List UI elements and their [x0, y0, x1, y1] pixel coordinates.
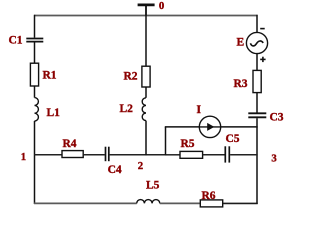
wire R3 to C3 [256, 93, 258, 113]
capacitor C5 [225, 146, 229, 162]
wire center vertical top [145, 16, 147, 67]
wire I-branch horizontal right [221, 126, 258, 128]
svg-text:0: 0 [159, 0, 164, 12]
wire C5 to node 3 [230, 154, 258, 156]
svg-text:R6: R6 [202, 190, 216, 202]
wire left rail bottom / node 1 [34, 121, 36, 204]
resistor R2 [142, 66, 150, 87]
wire R4 to C4 [83, 154, 105, 156]
wire C1 to R1 [34, 42, 36, 63]
svg-text:1: 1 [21, 151, 26, 163]
wire I-branch horizontal left [165, 126, 200, 128]
svg-text:2: 2 [138, 160, 143, 172]
inductor L2 [142, 98, 146, 121]
wire bottom rail left [34, 202, 137, 204]
wire E to R3 [256, 54, 258, 71]
current source I [199, 116, 220, 137]
resistor R6 [200, 200, 222, 207]
capacitor C1 [26, 39, 43, 42]
svg-text:L2: L2 [120, 103, 134, 115]
svg-text:R5: R5 [181, 138, 195, 150]
svg-text:R2: R2 [124, 71, 138, 83]
svg-text:C4: C4 [108, 164, 122, 176]
svg-text:R4: R4 [63, 138, 77, 150]
wire L2 to node 2 [145, 121, 147, 156]
wire C4 to node 2 [110, 154, 146, 156]
wire right rail bottom [256, 155, 258, 204]
wire C3 to I-branch junction [256, 118, 258, 127]
resistor R4 [62, 151, 83, 158]
wire I-branch vertical [165, 127, 167, 156]
wire top rail node 0 [34, 15, 258, 17]
svg-text:3: 3 [271, 153, 277, 165]
capacitor C3 [248, 113, 266, 117]
wire right rail to node 3 [256, 127, 258, 155]
svg-text:R3: R3 [234, 78, 248, 90]
svg-text:I: I [197, 104, 202, 116]
resistor R1 [30, 63, 38, 86]
svg-text:C5: C5 [226, 133, 240, 145]
svg-text:C1: C1 [9, 34, 23, 46]
wire left rail top [34, 15, 36, 38]
svg-text:E: E [237, 36, 245, 48]
wire R5 to C5 [203, 154, 225, 156]
wire bottom rail right [223, 202, 258, 204]
wire R1 to L1 [34, 86, 36, 98]
capacitor C4 [106, 147, 109, 162]
wire middle node1 to R4 [35, 154, 63, 156]
inductor L5 [137, 200, 160, 204]
wire I-branch junction to R5 [166, 154, 181, 156]
wire bottom rail middle [160, 202, 201, 204]
wire right rail top [256, 15, 258, 33]
svg-text:L1: L1 [47, 107, 61, 119]
svg-text:L5: L5 [146, 179, 160, 191]
wire node 2 to I-branch junction [146, 154, 166, 156]
wire R2 to L2 [145, 87, 147, 98]
inductor L1 [35, 98, 39, 121]
voltage source E [246, 29, 267, 63]
node 0 terminal [138, 5, 155, 16]
resistor R3 [253, 70, 261, 92]
resistor R5 [180, 151, 203, 158]
svg-text:C3: C3 [270, 111, 284, 123]
svg-text:R1: R1 [43, 69, 57, 81]
